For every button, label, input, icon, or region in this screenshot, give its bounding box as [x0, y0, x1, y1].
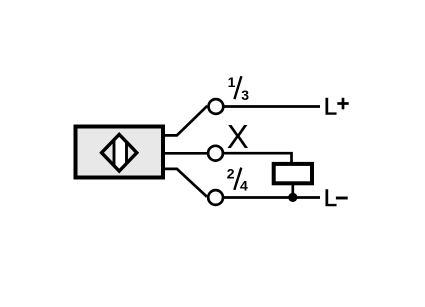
svg-text:2: 2 [227, 166, 235, 182]
wire load to L- rail [291, 184, 294, 198]
terminal circle pin 2/4 [208, 190, 223, 205]
junction dot [288, 193, 297, 202]
load resistor [274, 164, 312, 183]
svg-text:1: 1 [228, 74, 236, 90]
sensor symbol (proximity diamond) [102, 134, 137, 171]
wire pin1 to L+ [223, 105, 320, 108]
sensor box U1 [76, 127, 164, 178]
svg-text:3: 3 [241, 87, 249, 103]
wire pin3 to L- [223, 196, 320, 199]
svg-text:4: 4 [240, 177, 248, 193]
label 1/3 [228, 74, 250, 103]
svg-text:L: L [324, 185, 337, 212]
wire pin1 stub from box [163, 106, 207, 136]
terminal circle pin 2 (output) [208, 146, 223, 161]
wire pin2 stub from box [163, 152, 208, 155]
svg-text:L: L [324, 94, 337, 121]
wire pin3 stub from box [163, 169, 207, 197]
svg-text:X: X [227, 118, 249, 155]
wire pin2 to load [223, 153, 292, 163]
node L+ [324, 94, 349, 121]
node L- [324, 185, 348, 212]
terminal circle pin 1/3 [209, 99, 224, 114]
label 2/4 [227, 166, 248, 194]
